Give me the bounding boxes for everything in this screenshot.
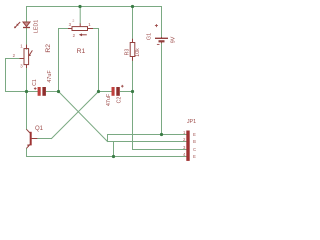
svg-text:47uF: 47uF [47, 70, 53, 83]
svg-text:3: 3 [20, 64, 23, 69]
svg-text:E: E [193, 132, 196, 137]
svg-text:JP1: JP1 [187, 119, 196, 125]
svg-text:Q1: Q1 [35, 126, 44, 132]
svg-text:2: 2 [72, 19, 74, 23]
svg-text:1: 1 [20, 44, 23, 49]
svg-text:R3: R3 [125, 49, 131, 56]
svg-text:1: 1 [88, 22, 91, 27]
svg-text:C2: C2 [116, 97, 122, 104]
svg-text:B: B [193, 139, 196, 144]
svg-text:47uF: 47uF [106, 93, 112, 106]
svg-text:E: E [193, 154, 196, 159]
svg-text:2: 2 [13, 53, 16, 58]
svg-text:C: C [193, 147, 196, 152]
svg-text:10k: 10k [135, 48, 141, 57]
svg-text:2: 2 [73, 33, 76, 38]
svg-text:LED1: LED1 [34, 20, 40, 34]
svg-text:C1: C1 [32, 79, 38, 86]
svg-text:3: 3 [69, 22, 72, 27]
svg-text:R2: R2 [45, 44, 52, 53]
svg-text:9V: 9V [170, 36, 176, 43]
svg-text:G1: G1 [146, 33, 152, 40]
svg-text:R1: R1 [77, 48, 86, 55]
